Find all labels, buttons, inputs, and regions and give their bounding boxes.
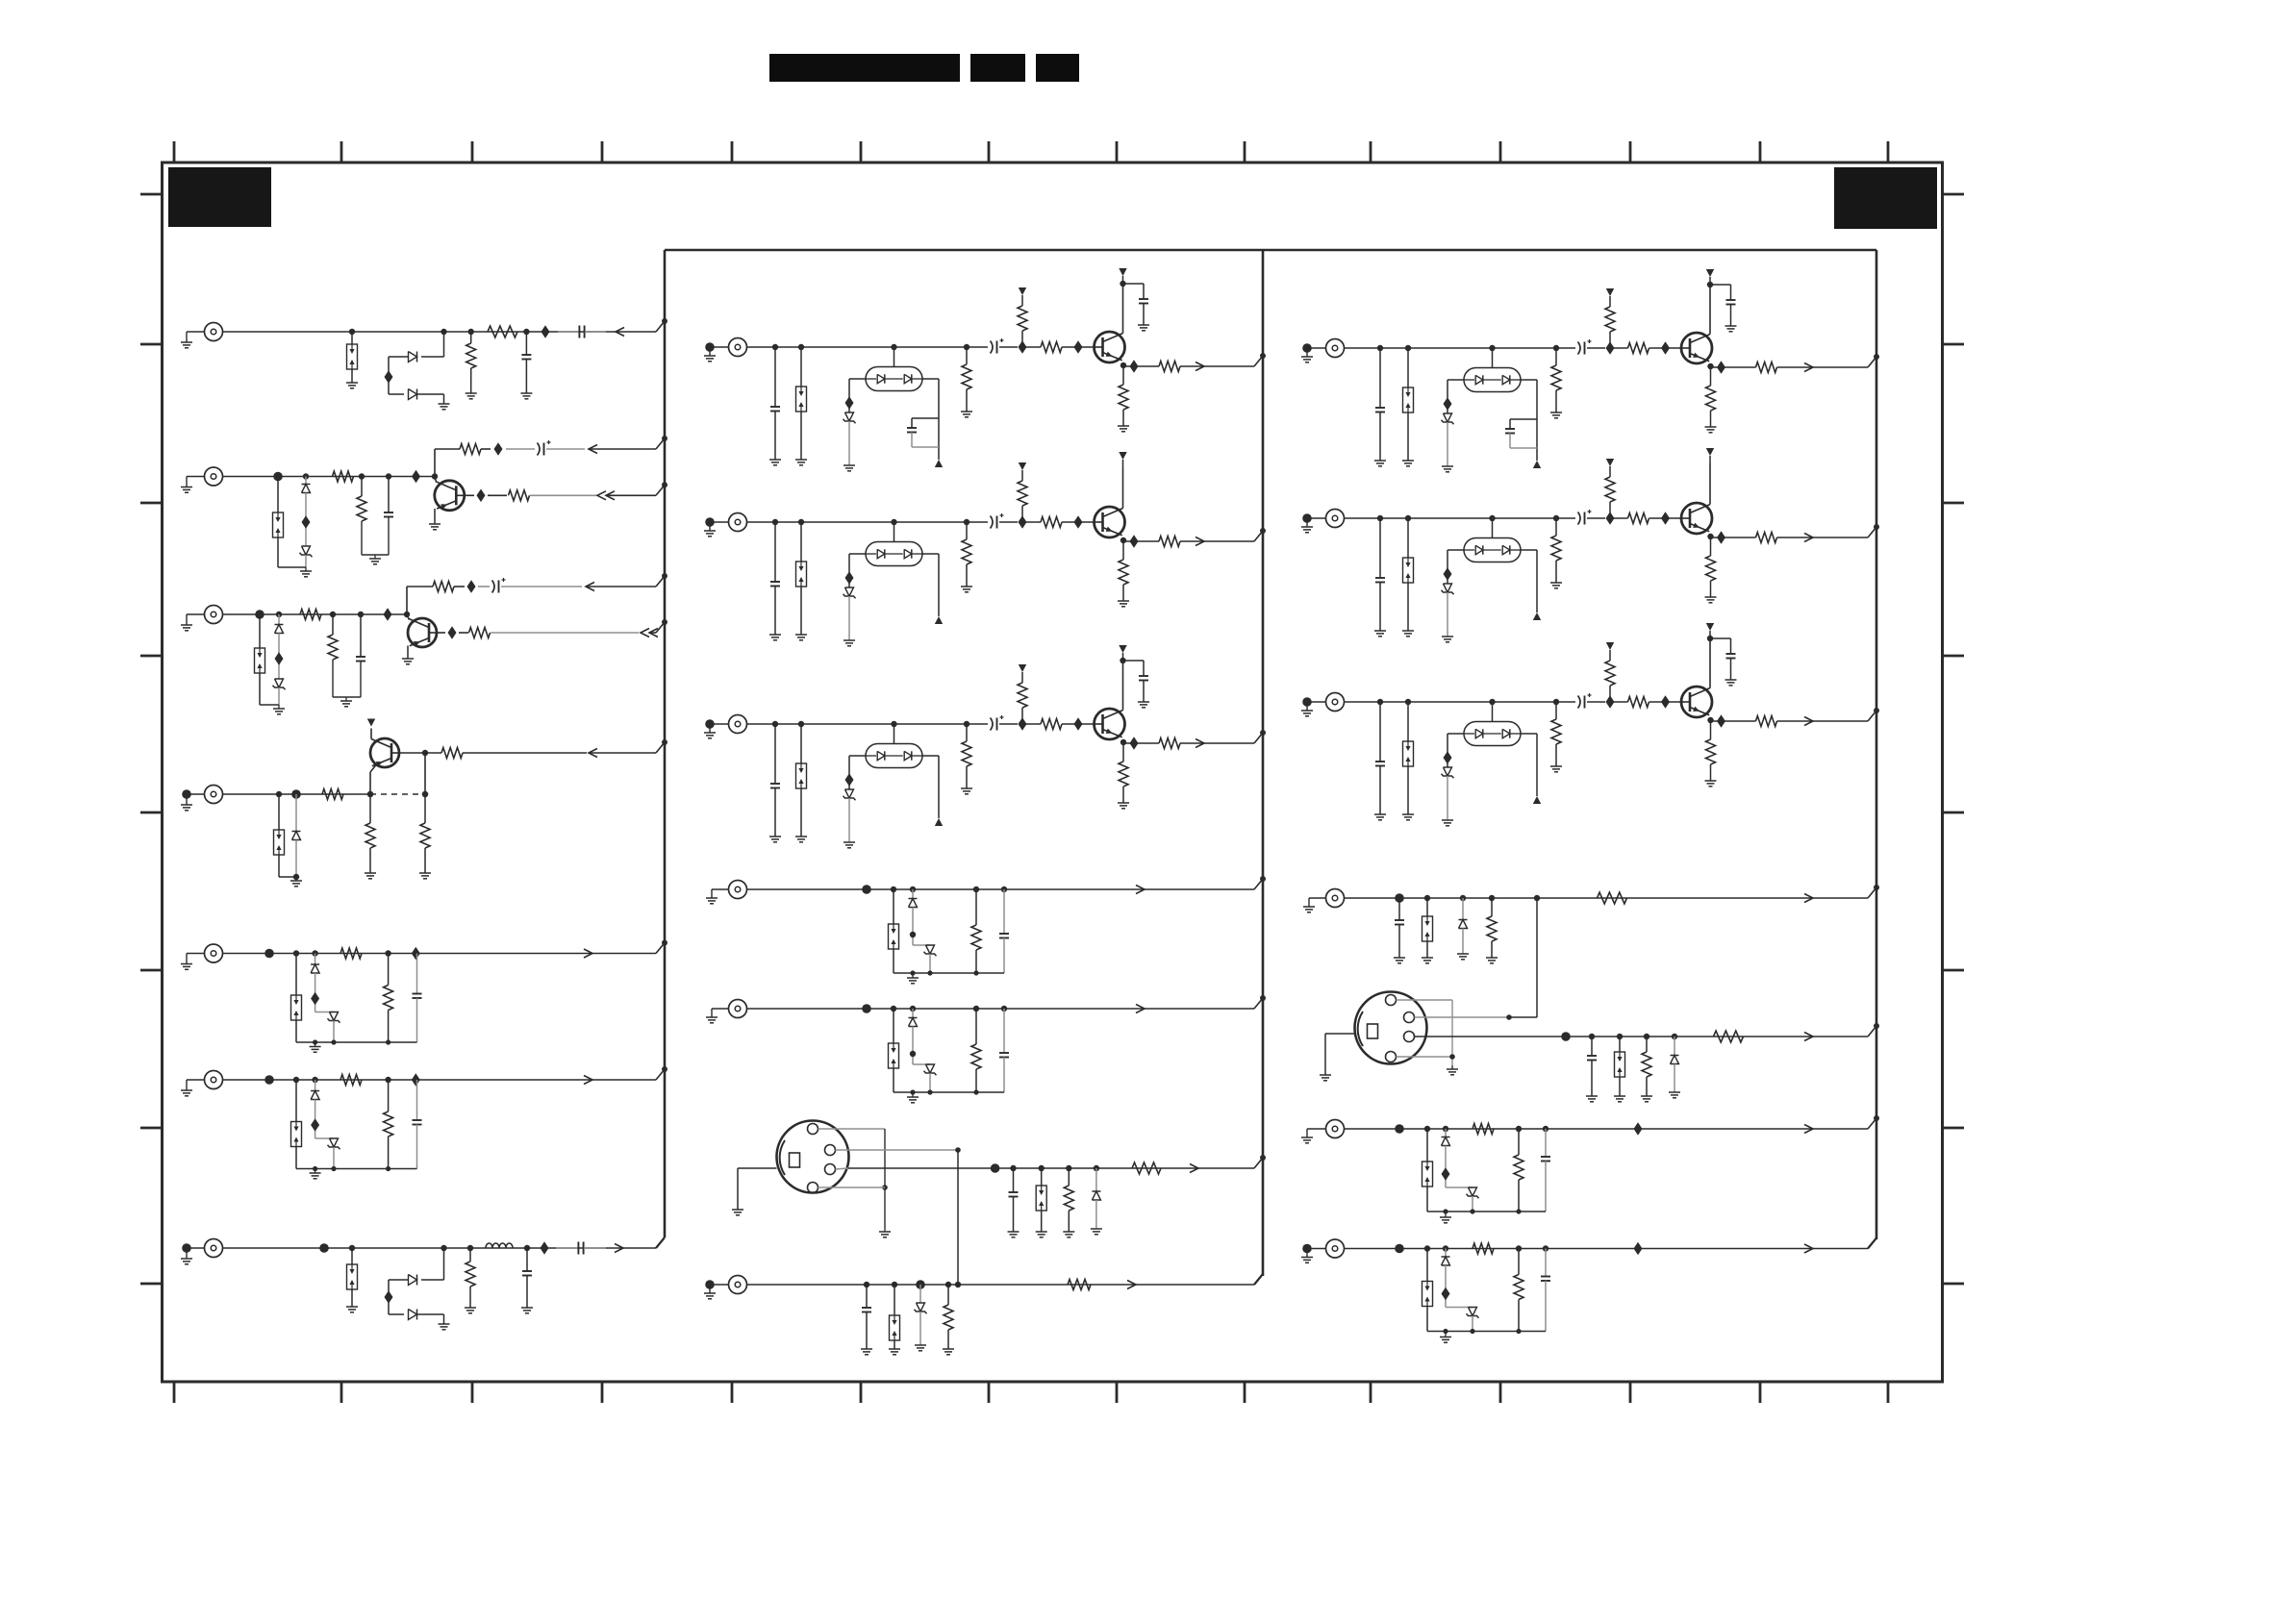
resistor R14 xyxy=(419,791,431,879)
zener diode VD1 xyxy=(300,546,313,557)
wire joining bus xyxy=(1868,1023,1879,1037)
connector J6 (cinch) xyxy=(205,1071,223,1089)
wire xyxy=(223,331,657,333)
ground (input shield) xyxy=(1301,513,1326,533)
resistor R6 xyxy=(488,490,596,501)
junction xyxy=(1711,714,1756,728)
zener diode R3vd xyxy=(1442,767,1454,778)
resistor R3r2 (bias, to supply) xyxy=(1605,642,1615,709)
zener diode M1vd xyxy=(843,412,856,423)
pin 1 xyxy=(1386,995,1397,1006)
wire joining bus xyxy=(1254,528,1266,541)
suppressor diode pair D8 xyxy=(274,791,285,877)
junction xyxy=(384,608,392,621)
middle bus end bend xyxy=(1254,1274,1263,1285)
capacitor D25f xyxy=(1541,1245,1550,1331)
node xyxy=(910,887,916,899)
wire joining bus xyxy=(1254,995,1266,1009)
diode D15b xyxy=(909,899,918,908)
ground xyxy=(1442,592,1453,642)
ground (input shield) xyxy=(181,789,205,811)
wire xyxy=(1444,734,1465,767)
signal arrow xyxy=(584,1076,592,1085)
junction xyxy=(862,885,871,894)
capacitor C11 xyxy=(1394,893,1405,963)
M3r1 xyxy=(961,721,972,794)
connector J17 (cinch) xyxy=(1326,889,1345,908)
signal arrow xyxy=(1804,534,1868,542)
signal arrow xyxy=(1196,739,1254,748)
wire joining bus xyxy=(1868,708,1879,721)
ground xyxy=(843,798,855,848)
ground (input shield) xyxy=(1301,1244,1326,1263)
wire xyxy=(910,1027,930,1065)
wire (pin 4) xyxy=(1397,1054,1455,1060)
connector J7 (cinch) xyxy=(205,1239,223,1258)
transistor Q4 (NPN) xyxy=(1095,332,1125,362)
wire xyxy=(399,752,425,754)
ground xyxy=(879,1229,891,1237)
junction xyxy=(1123,535,1159,548)
ground xyxy=(894,970,1004,983)
resistor R9 xyxy=(407,582,465,592)
capacitor M3c3 (electrolytic) xyxy=(991,715,1019,731)
wire xyxy=(1442,1146,1473,1188)
wire (pin 4) xyxy=(818,1187,886,1188)
resistor M2r2 (bias, to supply) xyxy=(1018,462,1027,529)
M2d1 xyxy=(795,519,807,640)
resistor M1r2 (bias, to supply) xyxy=(1018,287,1027,354)
net bus right (right column output bus) xyxy=(1876,250,1878,1239)
suppressor diode pair D22 xyxy=(1614,1034,1625,1102)
wire xyxy=(929,954,931,973)
suppressor diode pair D17 xyxy=(1036,1165,1047,1237)
capacitor C7 xyxy=(521,1245,533,1313)
signal arrow xyxy=(586,583,656,591)
capacitor D15e xyxy=(999,887,1009,973)
diode D10b xyxy=(311,964,319,973)
wire xyxy=(311,1100,334,1139)
wire xyxy=(1444,550,1465,584)
wire xyxy=(1521,550,1537,612)
ground (input shield) xyxy=(181,1080,205,1096)
transistor Q9 (NPN) xyxy=(1681,687,1712,717)
capacitor R1c3 (electrolytic) xyxy=(1578,339,1606,355)
dual diode R3d2 (encapsulated) xyxy=(1464,699,1521,746)
wire xyxy=(1472,1196,1473,1212)
R1d1 xyxy=(1402,345,1414,466)
diode D9 xyxy=(292,832,301,840)
diode D24b xyxy=(1442,1137,1450,1146)
connector J16 (cinch) xyxy=(729,1276,747,1294)
suppressor diode pair D19 xyxy=(889,1282,900,1355)
diode D7 xyxy=(275,625,284,634)
junction xyxy=(465,489,486,503)
signal arrow xyxy=(1196,537,1254,546)
capacitor M1c3 (electrolytic) xyxy=(991,338,1019,354)
pin 4 xyxy=(1386,1052,1397,1062)
wire xyxy=(1709,463,1711,505)
signal arrow xyxy=(616,328,624,337)
ground xyxy=(417,1314,450,1330)
node xyxy=(303,473,309,484)
junction xyxy=(1661,341,1670,355)
pin 2 xyxy=(1404,1012,1415,1023)
ground xyxy=(333,660,361,707)
junction xyxy=(1074,340,1083,354)
zener diode D25c xyxy=(1467,1308,1479,1318)
frame tick marks right xyxy=(1943,194,1965,1284)
suppressor diode pair D25a xyxy=(1422,1245,1433,1331)
resistor R12 xyxy=(425,748,587,759)
wire xyxy=(845,554,867,587)
wire xyxy=(1345,347,1576,349)
power supply arrow xyxy=(1119,268,1126,284)
node xyxy=(276,612,282,625)
R1r1 xyxy=(1550,345,1562,418)
resistor R19 xyxy=(1068,1280,1091,1290)
node xyxy=(312,950,317,964)
M2c1 xyxy=(769,519,781,640)
ground xyxy=(843,596,855,646)
power supply arrow xyxy=(935,818,943,826)
signal arrow xyxy=(1804,1033,1813,1041)
junction xyxy=(1395,1244,1404,1254)
power supply arrow xyxy=(935,616,943,624)
wire (pin 2) xyxy=(1415,1014,1538,1020)
signal arrow xyxy=(1804,363,1868,372)
resistor D11e xyxy=(384,1077,393,1169)
wire joining bus xyxy=(1254,730,1266,743)
zener diode D15c xyxy=(924,945,937,956)
wire xyxy=(1472,1316,1473,1332)
ground xyxy=(843,421,855,471)
connector J12 (cinch) xyxy=(1326,510,1345,528)
wire joining left bus xyxy=(656,436,667,449)
ground xyxy=(1427,1209,1546,1222)
wire xyxy=(389,1280,409,1314)
power supply arrow xyxy=(1119,645,1126,661)
resistor M3r4 (emitter) xyxy=(1118,739,1129,809)
zener diode D16c xyxy=(924,1064,937,1075)
transistor Q7 (NPN) xyxy=(1681,333,1712,363)
resistor D25d xyxy=(1473,1243,1494,1254)
ground xyxy=(1447,1065,1458,1075)
wire xyxy=(389,1313,404,1315)
signal arrow xyxy=(1804,717,1868,726)
junction xyxy=(1395,1124,1404,1134)
capacitor M3c4 xyxy=(1120,658,1149,708)
junction xyxy=(422,791,428,797)
wire xyxy=(1345,701,1576,703)
ground (input shield) xyxy=(1301,343,1326,362)
diode D11b xyxy=(311,1091,319,1100)
wire joining left bus xyxy=(656,619,667,633)
resistor M1r5 (output) xyxy=(1159,362,1203,372)
M1r1 xyxy=(961,344,972,417)
power supply arrow xyxy=(935,460,943,467)
wire xyxy=(1442,1265,1473,1308)
junction xyxy=(1634,1242,1643,1256)
suppressor diode pair D11a xyxy=(291,1077,302,1169)
resistor D10d xyxy=(340,948,362,959)
ground xyxy=(429,509,441,530)
resistor R17 xyxy=(1132,1162,1161,1174)
wire xyxy=(922,554,939,616)
wire xyxy=(1709,638,1711,688)
M3d1 xyxy=(795,721,807,842)
signal arrow xyxy=(1136,886,1145,894)
wire joining bus xyxy=(1868,524,1879,537)
wire xyxy=(223,1247,657,1249)
wire xyxy=(389,393,404,395)
connector J1 (cinch) xyxy=(205,323,223,341)
wire (pin 3) xyxy=(1415,1036,1869,1037)
connector J2 (cinch) xyxy=(205,467,223,486)
dual diode M1d2 (encapsulated) xyxy=(866,344,922,391)
resistor M1r3 xyxy=(1022,342,1095,353)
wire xyxy=(1122,284,1124,334)
resistor R16 xyxy=(1063,1165,1074,1237)
dual diode M3d2 (encapsulated) xyxy=(866,721,922,768)
node xyxy=(1443,1126,1448,1137)
ground (input shield) xyxy=(1301,697,1326,716)
resistor R1r2 (bias, to supply) xyxy=(1605,288,1615,355)
diode D13 xyxy=(409,1275,417,1286)
resistor R20 xyxy=(1486,895,1498,963)
suppressor diode pair D24a xyxy=(1422,1126,1433,1212)
resistor M2r3 xyxy=(1022,517,1095,528)
wire xyxy=(223,613,408,615)
signal arrow xyxy=(1196,362,1254,371)
ground (input shield) xyxy=(181,332,205,348)
zener diode D10c xyxy=(328,1012,340,1023)
wire joining bus xyxy=(1254,1155,1266,1168)
capacitor R2c3 (electrolytic) xyxy=(1578,510,1606,525)
wire joining left bus xyxy=(656,739,667,753)
junction xyxy=(264,949,274,959)
M2r1 xyxy=(961,519,972,592)
signal arrow xyxy=(615,1244,623,1253)
wire xyxy=(845,379,867,412)
node xyxy=(312,1077,317,1091)
wire xyxy=(333,1021,335,1043)
wire joining left bus xyxy=(656,940,667,954)
wire xyxy=(747,346,989,348)
wire xyxy=(404,587,410,617)
wire joining bus xyxy=(1254,876,1266,889)
signal arrow xyxy=(1804,894,1813,903)
ground (input shield) xyxy=(1303,898,1326,912)
wire xyxy=(223,476,436,478)
junction xyxy=(1661,512,1670,525)
junction xyxy=(1534,895,1540,901)
wire joining left bus xyxy=(656,573,667,587)
power supply arrow xyxy=(1706,269,1714,285)
diode D14 xyxy=(409,1310,417,1320)
net bus top rail xyxy=(665,249,1876,252)
wire xyxy=(747,888,1255,890)
resistor R18 xyxy=(943,1282,954,1355)
connector J5 (cinch) xyxy=(205,944,223,962)
wire (pin 1) xyxy=(818,1129,888,1229)
signal arrow xyxy=(1136,1005,1145,1013)
junction xyxy=(494,442,503,456)
wire joining left bus xyxy=(656,1066,667,1080)
suppressor diode pair D1 xyxy=(346,329,358,388)
diode D3 xyxy=(409,389,417,400)
wire xyxy=(422,750,428,794)
junction xyxy=(264,1075,274,1085)
junction xyxy=(541,1241,549,1255)
junction xyxy=(467,580,476,593)
resistor R1r4 (emitter) xyxy=(1705,363,1717,433)
left bus end bend xyxy=(656,1237,665,1248)
resistor M2r5 (output) xyxy=(1159,537,1203,547)
capacitor M2c3 (electrolytic) xyxy=(991,513,1019,529)
capacitor C3 xyxy=(384,473,393,516)
wire xyxy=(1536,898,1538,1017)
connector J11 (cinch) xyxy=(1326,339,1345,358)
node xyxy=(916,1280,925,1303)
ground (input shield) xyxy=(181,477,205,493)
wire xyxy=(747,1284,1255,1286)
resistor R3r4 (emitter) xyxy=(1705,717,1717,787)
ground (input shield) xyxy=(704,1280,729,1299)
capacitor C1 xyxy=(520,329,532,399)
transistor Q2 (PNP) xyxy=(407,614,437,647)
title block bar 2 (redacted) xyxy=(970,54,1025,82)
connector J9 (cinch) xyxy=(729,513,747,532)
suppressor diode pair D12 xyxy=(346,1245,358,1312)
transistor Q8 (NPN) xyxy=(1681,503,1712,534)
ground xyxy=(278,555,312,577)
junction xyxy=(1634,1122,1643,1136)
ground (input shield) xyxy=(706,1009,729,1023)
ground xyxy=(417,394,450,410)
resistor R13 xyxy=(365,791,376,879)
M1c1 xyxy=(769,344,781,465)
capacitor C10 xyxy=(861,1282,872,1355)
resistor M2r4 (emitter) xyxy=(1118,537,1129,607)
ground xyxy=(279,840,302,887)
transistor Q1 (PNP) xyxy=(435,477,465,511)
transistor Q5 (NPN) xyxy=(1095,507,1125,537)
zener diode M3vd xyxy=(843,789,856,800)
wire joining bus xyxy=(1868,354,1879,367)
wire xyxy=(910,908,930,946)
wire xyxy=(223,793,371,795)
resistor M3r3 xyxy=(1022,719,1095,730)
connector J14 (cinch) xyxy=(729,881,747,899)
resistor D25e xyxy=(1514,1245,1523,1331)
resistor M1r4 (emitter) xyxy=(1118,362,1129,432)
net bus left (left column output bus) xyxy=(664,250,667,1237)
connector J4 (cinch) xyxy=(205,786,223,804)
diode D25b xyxy=(1442,1257,1450,1265)
dual diode M2d2 (encapsulated) xyxy=(866,519,922,566)
connector X1 (DIN socket) xyxy=(777,1121,849,1193)
capacitor C2 (series) xyxy=(558,326,606,338)
ground xyxy=(915,1312,926,1351)
ground xyxy=(296,1039,417,1052)
wire joining left bus xyxy=(656,318,667,332)
wire xyxy=(223,953,657,955)
wire xyxy=(845,756,867,789)
capacitor R3c4 xyxy=(1707,636,1737,686)
wire xyxy=(333,1147,335,1169)
pin 2 xyxy=(825,1145,836,1156)
resistor R8 xyxy=(328,612,338,660)
capacitor D10f xyxy=(412,947,422,1042)
junction xyxy=(412,470,420,484)
junction xyxy=(862,1004,871,1013)
capacitor D16e xyxy=(999,1006,1009,1092)
wire xyxy=(747,1008,1255,1010)
connector J8 (cinch) xyxy=(729,338,747,357)
connector J10 (cinch) xyxy=(729,715,747,734)
ground (input shield) xyxy=(181,1243,205,1264)
ground (input shield) xyxy=(1301,1129,1326,1143)
wire xyxy=(1122,467,1124,509)
capacitor C8 (series) xyxy=(556,1242,606,1255)
junction xyxy=(541,325,550,338)
resistor R22 xyxy=(1641,1034,1652,1102)
resistor R2r4 (emitter) xyxy=(1705,534,1717,603)
ground xyxy=(1442,422,1453,472)
wire xyxy=(275,634,284,680)
resistor D10e xyxy=(384,950,393,1042)
page border frame xyxy=(163,162,1943,1382)
frame tick marks top xyxy=(174,141,1888,162)
power supply arrow xyxy=(1706,448,1714,463)
ground (input shield) xyxy=(704,342,729,362)
node xyxy=(421,1245,447,1280)
zone label box top-left (redacted) xyxy=(168,167,271,227)
R3r1 xyxy=(1550,699,1562,772)
capacitor C4 (electrolytic) xyxy=(506,440,585,456)
zener diode M2vd xyxy=(843,587,856,598)
zener diode R1vd xyxy=(1442,413,1454,424)
wire joining bus xyxy=(1868,1115,1879,1129)
wire xyxy=(1709,285,1711,335)
connector J19 (cinch) xyxy=(1326,1239,1345,1258)
R1c1 xyxy=(1374,345,1386,466)
pin 4 xyxy=(808,1183,818,1193)
resistor M3r2 (bias, to supply) xyxy=(1018,664,1027,731)
node A xyxy=(367,772,373,797)
title block bar 3 (redacted) xyxy=(1036,54,1079,82)
junction xyxy=(1561,1032,1571,1041)
suppressor diode pair D16a xyxy=(889,1006,899,1092)
title block bar (redacted) xyxy=(769,54,960,82)
wire xyxy=(1122,661,1124,711)
connector J3 (cinch) xyxy=(205,606,223,624)
capacitor C12 xyxy=(1586,1034,1598,1102)
ground xyxy=(894,1089,1004,1102)
junction xyxy=(1074,515,1083,529)
capacitor C9 xyxy=(1008,1165,1020,1237)
suppressor diode pair D20 xyxy=(1422,895,1433,963)
power supply arrow xyxy=(1533,461,1541,468)
node xyxy=(910,1006,916,1018)
resistor D15d xyxy=(971,887,981,973)
capacitor C6 (electrolytic) xyxy=(478,578,582,593)
diode D5 xyxy=(302,485,311,493)
wire xyxy=(389,357,409,394)
junction xyxy=(1711,361,1756,374)
wire (pin 1) xyxy=(1397,1000,1453,1065)
